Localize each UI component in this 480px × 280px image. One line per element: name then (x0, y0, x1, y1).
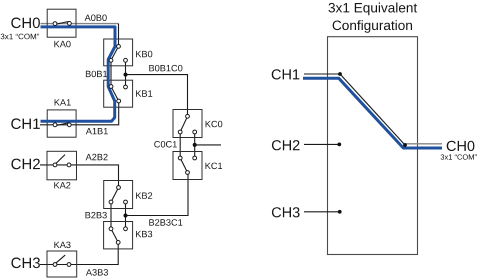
switch KB2 arm common to left throw (111, 188, 119, 203)
relay box KA2 (47, 151, 77, 180)
switch KB1 arm left throw to common (111, 87, 119, 102)
label KA3 (54, 242, 70, 249)
switch KB0 arm common to left throw (111, 46, 119, 60)
switch KA1 contacts (53, 123, 71, 127)
relay box KB0 (104, 39, 133, 66)
label B2B3 (86, 212, 107, 219)
wire CH0 gray horizontal (41, 23, 119, 25)
wire A1B1 horizontal CH1 and up to KB1 common (40, 101, 119, 125)
wire B2B3 left vertical KB2 to KB3 (110, 202, 112, 229)
wire right vertical KB0 to KB1 (125, 60, 127, 87)
relay box KB1 (104, 80, 133, 107)
label C0C1 (154, 141, 177, 148)
switch KA0 arm closed (56, 22, 68, 25)
blue selected path right diagram (303, 78, 442, 148)
blue selected path CH0 to CH1 (41, 27, 116, 121)
label B0B1C0 (149, 65, 182, 72)
wire A3B3 horizontal CH3 and up to KB3 common (40, 242, 118, 264)
label KB1 (136, 90, 152, 96)
wire KC0 left contact down to KC1 (179, 132, 181, 158)
relay box KB2 (104, 181, 133, 209)
relay box KC1 (173, 152, 202, 180)
label CH1 right (272, 69, 300, 79)
switch KA2 arm open (56, 155, 65, 164)
title line 2 (333, 20, 412, 33)
wire A2B2 horizontal CH2 and down to KB2 common (40, 165, 119, 188)
switch KA3 arm open (56, 255, 65, 263)
wire CH3 lead right diagram (304, 211, 340, 213)
label A1B1 (86, 128, 108, 134)
junction dot CH1 right diagram (338, 72, 342, 76)
junction dot C0C1 (193, 143, 197, 147)
wire CH1 lead right diagram (304, 73, 340, 75)
label CH2 left (11, 159, 40, 170)
label CH1 (11, 118, 40, 129)
wire B2B3C1 horizontal and up to KC1 common (126, 173, 189, 216)
wire equivalent diagonal CH1 to CH0 (340, 74, 405, 145)
switch KA3 contacts (53, 263, 71, 267)
label CH3 right (272, 207, 300, 217)
equivalent configuration box (328, 37, 418, 255)
label KA2 (54, 182, 70, 188)
label KB3 (136, 231, 152, 238)
label A0B0 (85, 15, 107, 22)
switch KC0 contacts (178, 114, 196, 134)
switch KB2 contacts (109, 186, 127, 204)
relay box KB3 (104, 222, 133, 249)
label B2B3C1 (149, 219, 182, 226)
label 3x1 COM right (441, 154, 477, 159)
junction dot CH0 right diagram (403, 143, 407, 147)
relay box KA0 (47, 9, 76, 37)
label A2B2 (86, 154, 108, 160)
wire B0B1 left vertical KB0 to KB1 (110, 60, 112, 86)
label KA1 (55, 99, 71, 105)
switch KA2 contacts (53, 163, 71, 167)
label KB0 (136, 51, 152, 58)
wire right vertical KB2 to KB3 (125, 202, 127, 229)
label KC0 (206, 121, 223, 128)
switch KB0 contacts (109, 45, 127, 63)
wire CH2 lead right diagram (304, 143, 339, 145)
wire C0C1 output stub (195, 144, 221, 146)
switch KC1 arm left throw to common (180, 158, 187, 173)
switch KA0 contacts (53, 22, 71, 26)
label B0B1 (86, 71, 107, 78)
switch KC1 contacts (178, 156, 196, 174)
junction dot B2B3C1 (124, 214, 128, 218)
relay box KC0 (173, 110, 202, 138)
switch KC0 arm common to left throw (180, 116, 187, 132)
label KA0 (54, 41, 70, 48)
label CH2 right (272, 140, 300, 150)
wire B0B1C0 horizontal and down to KC0 (126, 75, 188, 117)
label A3B3 (86, 269, 108, 276)
label KB2 (136, 192, 152, 198)
label 3x1 COM left (1, 34, 40, 40)
node dot CH2 right diagram (337, 143, 341, 147)
title line 1 (329, 3, 418, 16)
switch KB3 arm left throw to common (111, 229, 118, 243)
relay box KA1 (47, 110, 76, 137)
label CH0 (11, 18, 40, 29)
switch KA1 arm closed (56, 123, 68, 126)
node dot CH3 right diagram (338, 210, 342, 214)
relay box KA3 (47, 251, 77, 277)
switch KB1 contacts (109, 85, 127, 103)
label CH3 left (11, 258, 40, 269)
wire A0B0 vertical down to KB0 common (118, 24, 120, 47)
wire KC0 right contact down to KC1 (194, 132, 196, 158)
label CH0 right (447, 141, 475, 151)
junction dot B0B1C0 (124, 73, 128, 77)
switch KB3 contacts (109, 227, 127, 244)
wire CH0 gray lead right diagram (404, 143, 442, 145)
label KC1 (206, 163, 223, 170)
